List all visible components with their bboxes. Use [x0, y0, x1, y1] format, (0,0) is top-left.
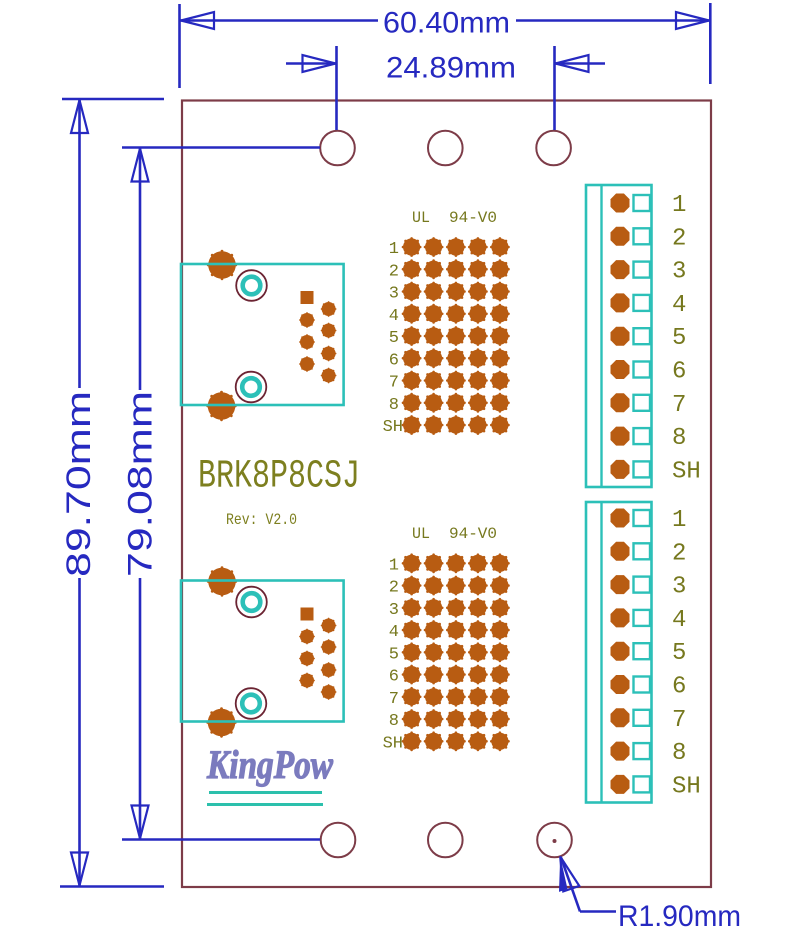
mounting hole top-right — [536, 131, 571, 166]
svg-text:1: 1 — [672, 192, 686, 219]
terminal block TB1 pads — [611, 194, 630, 479]
RJ45 J1 mounting pad top — [207, 250, 237, 280]
svg-text:4: 4 — [672, 607, 686, 634]
svg-text:8: 8 — [672, 425, 686, 452]
RJ45 J2 pin 1 square pad — [301, 608, 314, 621]
terminal block TB2 pin labels — [672, 507, 701, 800]
dimension 89.70mm extension tick bottom — [60, 885, 164, 888]
svg-text:1: 1 — [389, 240, 399, 259]
svg-text:5: 5 — [672, 640, 686, 667]
board outline — [182, 101, 711, 888]
KingPow logo underline 1 — [209, 791, 322, 794]
dimension 79.08mm line lower segment — [139, 578, 142, 840]
svg-text:8: 8 — [672, 740, 686, 767]
pad grid 2 pads — [402, 553, 510, 751]
dimension 24.89mm leader right — [555, 62, 605, 65]
dimension 60.40mm extension line left — [178, 4, 181, 88]
RJ45 J1 mounting pad bottom — [206, 391, 236, 421]
terminal block TB1 outline — [586, 185, 652, 487]
svg-text:7: 7 — [389, 374, 399, 393]
svg-text:6: 6 — [389, 668, 399, 687]
dimension 79.08mm line upper segment — [139, 148, 142, 391]
dimension 89.70mm line lower segment — [78, 578, 81, 887]
dimension 79.08mm text — [122, 391, 160, 577]
svg-text:5: 5 — [672, 325, 686, 352]
svg-text:SH: SH — [672, 773, 701, 800]
svg-text:60.40mm: 60.40mm — [383, 7, 510, 40]
svg-text:8: 8 — [389, 396, 399, 415]
pad grid 2 row labels — [383, 556, 403, 753]
dimension 89.70mm arrow bottom — [71, 853, 88, 886]
radius callout R1.90mm leader diagonal — [561, 858, 580, 912]
svg-text:1: 1 — [672, 507, 686, 534]
terminal block TB2 pads — [611, 509, 630, 794]
svg-text:UL: UL — [412, 525, 430, 543]
dimension 79.08mm arrow bottom — [132, 806, 149, 839]
RJ45 J2 shield hole upper — [236, 587, 267, 618]
dimension 60.40mm line left segment — [180, 19, 378, 22]
svg-text:5: 5 — [389, 329, 399, 348]
svg-text:3: 3 — [389, 285, 399, 304]
dimension 60.40mm extension line right — [709, 3, 712, 84]
svg-text:4: 4 — [672, 292, 686, 319]
dimension 24.89mm arrow right — [556, 55, 589, 72]
RJ45 connector J1 outline — [181, 264, 344, 405]
dimension 60.40mm arrow left — [181, 12, 214, 29]
radius callout R1.90mm hole center dot — [553, 839, 557, 843]
dimension 89.70mm arrow top — [71, 100, 88, 133]
svg-text:UL: UL — [412, 209, 430, 227]
dimension 24.89mm extension line right — [553, 46, 556, 130]
svg-text:8: 8 — [389, 712, 399, 731]
RJ45 J2 pin pads right column — [321, 618, 337, 700]
svg-text:89.70mm: 89.70mm — [60, 391, 98, 577]
dimension 89.70mm line upper segment — [78, 99, 81, 388]
RJ45 J1 pin pads right column — [321, 301, 337, 383]
svg-text:KingPow: KingPow — [206, 742, 333, 787]
radius callout R1.90mm arrow — [559, 857, 579, 892]
mounting hole bottom-right — [537, 823, 572, 858]
svg-text:3: 3 — [672, 259, 686, 286]
svg-text:5: 5 — [389, 645, 399, 664]
svg-text:4: 4 — [389, 623, 399, 642]
svg-text:7: 7 — [672, 707, 686, 734]
svg-text:Rev: V2.0: Rev: V2.0 — [226, 511, 297, 529]
RJ45 J1 pin pads left column — [299, 312, 315, 372]
terminal block TB2 inner line — [600, 502, 602, 803]
terminal block TB1 inner line — [600, 185, 602, 487]
dimension 79.08mm arrow top — [132, 149, 149, 182]
svg-text:SH: SH — [383, 418, 403, 437]
svg-text:SH: SH — [672, 458, 701, 485]
svg-text:2: 2 — [672, 225, 686, 252]
KingPow logo underline 2 — [207, 803, 323, 806]
svg-text:6: 6 — [672, 674, 686, 701]
svg-text:6: 6 — [389, 351, 399, 370]
dimension 24.89mm leader left — [286, 62, 336, 65]
RJ45 J2 mounting pad top — [207, 566, 237, 596]
svg-text:94-V0: 94-V0 — [449, 209, 497, 227]
terminal block TB1 pin labels — [672, 192, 701, 485]
svg-text:3: 3 — [672, 574, 686, 601]
svg-text:6: 6 — [672, 359, 686, 386]
svg-text:2: 2 — [389, 579, 399, 598]
svg-text:3: 3 — [389, 601, 399, 620]
RJ45 J1 pin 1 square pad — [301, 291, 314, 304]
terminal block TB1 wire squares — [634, 195, 651, 477]
svg-text:7: 7 — [672, 392, 686, 419]
terminal block TB2 outline — [586, 502, 652, 803]
mounting hole top-middle — [428, 131, 463, 166]
svg-text:79.08mm: 79.08mm — [122, 391, 160, 577]
mounting hole bottom-left — [321, 823, 356, 858]
mounting hole bottom-middle — [428, 823, 463, 858]
dimension 60.40mm line right segment — [516, 19, 710, 22]
svg-text:24.89mm: 24.89mm — [386, 52, 516, 85]
RJ45 J2 shield hole lower — [236, 688, 267, 719]
RJ45 connector J2 outline — [181, 581, 344, 722]
svg-text:R1.90mm: R1.90mm — [618, 900, 741, 930]
svg-text:94-V0: 94-V0 — [449, 525, 497, 543]
RJ45 J2 pin pads left column — [299, 629, 315, 689]
RJ45 J1 shield hole upper — [236, 270, 267, 301]
pad grid 1 pads — [402, 237, 510, 435]
svg-text:BRK8P8CSJ: BRK8P8CSJ — [198, 455, 360, 500]
dimension 89.70mm text — [60, 391, 98, 577]
dimension 24.89mm arrow left — [303, 55, 336, 72]
terminal block TB2 wire squares — [634, 510, 651, 792]
dimension 79.08mm extension tick bottom — [122, 838, 320, 841]
dimension 60.40mm arrow right — [676, 12, 709, 29]
mounting hole top-left — [320, 131, 355, 166]
RJ45 J2 mounting pad bottom — [206, 707, 236, 737]
dimension 79.08mm extension tick top — [122, 146, 320, 149]
svg-text:4: 4 — [389, 307, 399, 326]
dimension 89.70mm extension tick top — [62, 98, 164, 101]
pad grid 1 row labels — [383, 240, 403, 437]
dimension 24.89mm extension line left — [335, 46, 338, 130]
RJ45 J1 shield hole lower — [236, 372, 267, 403]
svg-text:1: 1 — [389, 556, 399, 575]
svg-text:2: 2 — [389, 262, 399, 281]
svg-text:SH: SH — [383, 734, 403, 753]
svg-text:7: 7 — [389, 690, 399, 709]
svg-text:2: 2 — [672, 540, 686, 567]
radius callout R1.90mm leader horizontal — [580, 910, 616, 913]
